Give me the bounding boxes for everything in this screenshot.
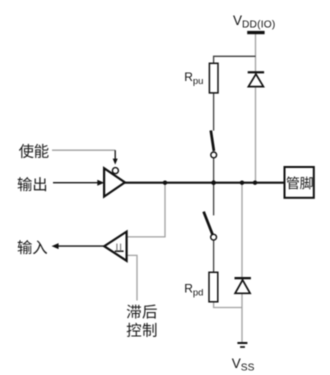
junction dot: main/top diode <box>253 181 257 185</box>
pin box 管脚 <box>285 167 314 198</box>
label 输出 (output) <box>18 177 46 191</box>
diode D1 (to VDD) cathode bar <box>248 71 264 73</box>
label Rpd <box>184 281 203 298</box>
svg-text:V: V <box>233 13 242 28</box>
switch SW2 contact circle <box>211 234 217 240</box>
wire: main line down to input buffer <box>127 183 165 237</box>
VDD power bar <box>247 31 264 34</box>
wire: bottom diode column from main line to VSS <box>241 183 243 343</box>
resistor Rpd <box>209 272 218 302</box>
U2 hysteresis symbol <box>115 250 124 252</box>
diode D2 (to VSS) cathode bar <box>235 277 251 279</box>
wire: input buffer to input label arrow <box>57 245 105 247</box>
junction dot: main/bottom diode <box>240 181 244 185</box>
label VSS <box>232 356 255 373</box>
ground symbol VSS <box>237 342 247 344</box>
wire: upper switch circle to main line <box>213 158 215 183</box>
arrowhead input <box>52 243 59 249</box>
label 管脚 (pin) <box>287 176 313 189</box>
label 输入 (input) <box>18 240 47 254</box>
U1 enable bubble <box>112 168 118 174</box>
junction dot: main/input branch <box>163 181 167 185</box>
label Rpu <box>184 70 203 87</box>
svg-text:R: R <box>184 70 193 84</box>
op-amp U1: output buffer triangle <box>104 168 125 196</box>
op-amp U2: input Schmitt buffer triangle <box>104 232 126 261</box>
label 使能 (enable) <box>19 144 49 158</box>
resistor Rpu <box>209 63 218 93</box>
wire: VDD rail down through top diode to main line <box>255 34 257 183</box>
arrowhead on enable line <box>113 159 118 165</box>
svg-text:pd: pd <box>193 287 204 298</box>
switch SW2 (pull-down) blade <box>204 212 213 235</box>
junction dot: main/pull column <box>211 180 216 185</box>
wire: Rpd bottom to bottom diode column <box>214 302 242 308</box>
switch SW1 contact circle <box>211 152 217 158</box>
wire: main line down to lower switch contact <box>213 183 215 216</box>
wire: branch from VDD rail to Rpu <box>214 56 256 64</box>
label 控制 (control) <box>127 323 157 337</box>
svg-text:SS: SS <box>241 362 255 373</box>
wire: output label arrow into buffer <box>53 182 100 184</box>
diode D2 triangle <box>235 280 250 293</box>
wire: Rpu bottom to upper switch <box>213 93 215 131</box>
svg-text:R: R <box>184 281 193 295</box>
label 滞后 (hysteresis) <box>127 305 157 319</box>
svg-text:pu: pu <box>193 76 204 87</box>
diode D1 triangle <box>248 74 263 87</box>
wire: enable line from label to inverter bubble <box>52 149 115 151</box>
wire: lower switch circle to Rpd <box>213 240 215 272</box>
wire: hysteresis control line <box>127 255 137 300</box>
switch SW1 (pull-up) blade <box>211 130 214 151</box>
svg-text:DD(IO): DD(IO) <box>242 19 275 30</box>
label VDD(IO) <box>233 13 275 31</box>
svg-text:V: V <box>232 356 241 371</box>
arrowhead output <box>97 180 104 186</box>
wire: main line from output buffer to pin box <box>125 182 285 184</box>
